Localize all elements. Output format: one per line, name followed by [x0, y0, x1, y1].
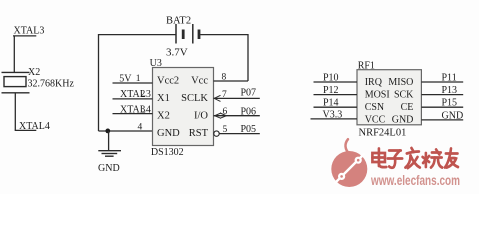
svg-text:5V: 5V: [119, 73, 132, 84]
RF1 left pin wire P10: [314, 81, 358, 83]
pin 5 inversion circle: [214, 131, 219, 136]
crystal body rect: [4, 77, 26, 87]
svg-text:XTAL3: XTAL3: [120, 89, 151, 100]
RF1 left pin wire P14: [314, 106, 358, 108]
U3 pin 6 wire: [214, 115, 260, 117]
svg-text:X2: X2: [28, 67, 40, 78]
svg-text:X2: X2: [157, 111, 170, 122]
svg-text:P06: P06: [241, 106, 257, 117]
svg-text:CE: CE: [401, 102, 414, 113]
svg-text:RF1: RF1: [358, 60, 375, 71]
char 友: [445, 149, 458, 168]
RF chip RF1 NRF24L01: [357, 60, 421, 138]
svg-text:P13: P13: [442, 85, 458, 96]
wire battery right: [200, 34, 248, 36]
net flag XTAL3 (left crystal top): [13, 26, 44, 73]
svg-text:DS1302: DS1302: [151, 147, 184, 158]
svg-text:IRQ: IRQ: [365, 77, 383, 88]
svg-text:5: 5: [223, 125, 228, 135]
svg-text:P14: P14: [323, 98, 339, 109]
svg-text:8: 8: [222, 72, 227, 82]
ground symbol: [98, 151, 121, 174]
battery plate long 2: [192, 24, 194, 44]
wire XTAL4 flag horizontal: [15, 129, 37, 131]
svg-text:XTAL4: XTAL4: [120, 104, 151, 115]
svg-text:MOSI: MOSI: [365, 90, 390, 101]
char 电: [372, 149, 386, 168]
RF1 left pin wire V3.3: [311, 118, 358, 120]
wire left rail from battery down: [98, 34, 100, 131]
svg-text:SCLK: SCLK: [181, 93, 208, 104]
svg-text:Vcc2: Vcc2: [157, 76, 179, 87]
svg-text:X1: X1: [157, 93, 170, 104]
char 子: [388, 151, 402, 168]
wire XTAL3 flag horizontal: [13, 35, 36, 37]
svg-text:CSN: CSN: [365, 102, 384, 113]
svg-text:RST: RST: [189, 128, 209, 139]
U3 pin 7 wire: [214, 97, 260, 99]
svg-text:7: 7: [222, 90, 227, 100]
crystal bottom plate: [2, 92, 30, 94]
watermark chinese text 电子发烧友 (drawn strokes): [372, 148, 458, 168]
crystal top plate: [2, 71, 30, 73]
char 烧: [423, 150, 443, 168]
pin 7 input arrow: [214, 95, 220, 101]
wire GND stem: [108, 131, 110, 150]
battery BAT2 3.7V: [99, 16, 249, 59]
RF1 box: [357, 70, 421, 125]
svg-text:GND: GND: [392, 115, 414, 126]
svg-text:P11: P11: [442, 72, 457, 83]
char 发: [405, 148, 419, 168]
logo pad 1: [338, 173, 345, 180]
wire pin4 to U3: [99, 130, 153, 132]
logo trace: [335, 154, 365, 184]
svg-text:P15: P15: [442, 98, 458, 109]
svg-text:GND: GND: [157, 128, 180, 139]
wire battery left: [99, 34, 176, 36]
logo pad 2: [355, 157, 362, 164]
battery plate short 1: [182, 30, 185, 40]
pin 6 bidirectional arrow: [215, 113, 227, 118]
svg-text:Vcc: Vcc: [191, 76, 208, 87]
crystal X2 32.768KHz: [2, 67, 75, 131]
svg-text:U3: U3: [150, 58, 162, 69]
RF1 right pin wire P11: [421, 81, 463, 83]
svg-text:I/O: I/O: [194, 111, 208, 122]
U3 pin 2 wire (XTAL3): [113, 98, 153, 100]
logo tail: [345, 139, 349, 153]
RF1 right pin wire P15: [421, 106, 463, 108]
svg-text:www.elecfans.com: www.elecfans.com: [370, 172, 460, 188]
svg-text:3: 3: [141, 105, 146, 115]
op chip U3 DS1302: [150, 58, 214, 158]
svg-text:1: 1: [136, 74, 141, 84]
wire riser pin8: [247, 34, 249, 81]
battery plate long 1: [175, 24, 177, 44]
svg-text:32.768KHz: 32.768KHz: [28, 78, 75, 89]
svg-text:MISO: MISO: [388, 77, 413, 88]
svg-text:3.7V: 3.7V: [166, 46, 188, 58]
U3 pin 8 wire up to battery: [214, 80, 249, 82]
svg-text:V3.3: V3.3: [323, 109, 343, 120]
RF1 left pin wire P12: [314, 94, 358, 96]
svg-text:GND: GND: [442, 110, 464, 121]
svg-text:P07: P07: [241, 87, 257, 98]
svg-text:XTAL3: XTAL3: [14, 26, 45, 37]
logo disc: [331, 151, 367, 187]
svg-text:2: 2: [141, 90, 146, 100]
svg-text:P10: P10: [323, 72, 339, 83]
svg-text:VCC: VCC: [365, 115, 386, 126]
svg-text:4: 4: [138, 123, 143, 133]
svg-text:SCK: SCK: [394, 90, 414, 101]
battery plate short 2: [198, 30, 201, 40]
U3 pin 5 wire: [219, 133, 259, 135]
U3 box: [153, 68, 214, 146]
wire XTAL3 to crystal: [13, 36, 15, 73]
RF1 right pin wire P13: [421, 94, 463, 96]
svg-text:NRF24L01: NRF24L01: [359, 128, 407, 139]
watermark logo elecfans: [331, 139, 367, 187]
U3 pin 3 wire (XTAL4): [113, 113, 153, 115]
junction dot: [105, 129, 110, 134]
svg-text:BAT2: BAT2: [166, 16, 191, 27]
U3 pin 1 wire (5V): [113, 82, 153, 84]
RF1 right pin wire GND: [421, 119, 463, 121]
svg-text:GND: GND: [98, 163, 120, 174]
svg-text:P12: P12: [323, 85, 339, 96]
net flag XTAL4 (left crystal bottom): [15, 121, 50, 132]
wire crystal to XTAL4 flag: [14, 93, 16, 131]
svg-text:P05: P05: [241, 124, 257, 135]
